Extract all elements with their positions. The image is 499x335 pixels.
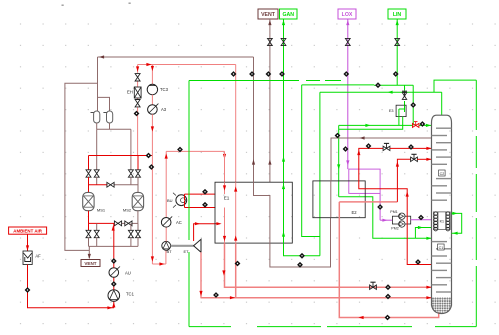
wire ms top regen stubs: [97, 129, 131, 170]
wire silencer outlets: [97, 123, 110, 129]
wire rich liquid subcooled: [339, 201, 397, 203]
wire A3 down: [151, 114, 154, 264]
wire ring top right: [434, 80, 476, 92]
svg-text:E3: E3: [389, 109, 394, 113]
booster BU: [167, 193, 187, 208]
wire regen header: [98, 55, 254, 58]
wire E3 passes: [399, 105, 405, 116]
wire purge branch: [302, 85, 320, 237]
wire ambient air line: [26, 234, 29, 251]
flow element on lower feed 1: [213, 292, 219, 298]
wire lower feed: [201, 296, 432, 299]
svg-text:E1: E1: [224, 196, 230, 201]
wire vent drop: [88, 246, 91, 259]
wire waste through E2: [330, 181, 332, 218]
wire filter outlet: [28, 265, 115, 310]
wire vent riser: [268, 19, 271, 182]
condenser K1: [433, 212, 450, 231]
wire BU suction: [185, 194, 216, 200]
valve V-MS2a: [128, 170, 133, 177]
wire cold header: [166, 151, 226, 159]
flow element BU suction: [202, 189, 208, 195]
wire lox pump drop: [379, 193, 381, 220]
compressor TC1: [108, 290, 135, 308]
subcooler E3: [389, 105, 406, 116]
valve on EH line lower: [135, 100, 140, 107]
wire E3 bypass: [412, 85, 414, 125]
wire E3 inlet: [404, 85, 406, 105]
wire GAN riser: [282, 19, 285, 182]
svg-text:BT: BT: [166, 249, 172, 254]
wire ms top crossover: [89, 177, 139, 192]
wire K1 circulation loop: [452, 212, 462, 235]
svg-text:ET: ET: [183, 249, 189, 254]
flow element below sieve: [111, 258, 117, 264]
control valve on hp feed: [370, 282, 377, 289]
node AMBIENT AIR label: [9, 227, 47, 234]
heater EH: [127, 87, 141, 98]
wire ring right side: [475, 80, 477, 327]
flow element on reflux 3: [408, 144, 414, 150]
heat exchanger E1: [215, 182, 292, 243]
svg-text:E2: E2: [351, 210, 357, 215]
svg-text:VENT: VENT: [84, 261, 96, 266]
wire BU discharge: [185, 200, 216, 207]
wire turbine inlet: [194, 222, 216, 241]
flow element on cold header: [177, 147, 183, 153]
flow element on air line: [25, 287, 31, 293]
flow element on regen riser: [249, 71, 255, 77]
valve V-MS1c: [86, 230, 91, 237]
flow element on rich liquid: [385, 315, 391, 321]
svg-text:TC3: TC3: [160, 87, 169, 92]
shaft BT-ET: [171, 245, 194, 247]
flow element on EH line: [134, 111, 140, 117]
wire lin to column: [339, 124, 432, 127]
node GAN (top label): [280, 9, 298, 19]
wire E1 pass b: [234, 182, 237, 243]
wire reflux into column: [390, 147, 432, 150]
wire lox bypass box: [349, 169, 380, 193]
svg-text:LIN: LIN: [393, 12, 402, 18]
wire lin header: [302, 84, 414, 86]
wire TC3 to A3: [151, 95, 153, 105]
pump PM2: [391, 221, 405, 231]
valve on LIN riser: [395, 38, 400, 45]
wire AU to sieve: [112, 223, 115, 267]
silencer S2: [103, 111, 112, 123]
svg-text:AF: AF: [35, 254, 41, 259]
valve V-MS1d: [94, 230, 99, 237]
aftercooler AC: [161, 216, 181, 227]
wire waste column line: [331, 136, 432, 181]
valve on bottom crossover left: [114, 221, 121, 226]
svg-text:A3: A3: [161, 107, 167, 112]
wire regen branch jog: [98, 97, 110, 111]
compressor TC3: [147, 84, 168, 94]
wire waste from column top: [320, 91, 442, 94]
valve on top crossover: [107, 182, 114, 187]
svg-text:C2: C2: [440, 172, 445, 176]
wire ms bottom stubs: [89, 223, 139, 230]
flow element on outlet b: [235, 261, 241, 267]
svg-text:MS2: MS2: [123, 208, 132, 213]
wire LOX riser: [346, 19, 349, 169]
wire ms bottom manifold: [89, 238, 139, 247]
aftercooler AU: [109, 267, 131, 278]
wire E1 turbine feed stub: [216, 222, 222, 225]
valve V-MS2c: [128, 230, 133, 237]
flow element on gan cold line: [299, 253, 305, 259]
wire column top riser: [441, 92, 443, 115]
adsorber MS1: [83, 192, 106, 212]
wire gan cold riser: [319, 92, 321, 256]
wire ms top feed stubs: [89, 156, 139, 171]
svg-text:VENT: VENT: [261, 12, 276, 18]
valve on EH line upper: [135, 74, 140, 81]
flow element on hp feed: [385, 284, 391, 290]
filter AF: [23, 251, 41, 265]
wire E1 pass a1: [223, 182, 226, 194]
valve on bottom crossover right: [125, 221, 132, 226]
flow element on ms manifold: [146, 153, 152, 159]
flow element on VENT riser: [266, 71, 272, 77]
column trays upper: [432, 128, 452, 200]
flow element on LOX riser (lower): [343, 146, 349, 152]
svg-text:BU: BU: [167, 198, 173, 203]
wire EH line: [136, 65, 139, 156]
control valve on E3 inlet: [402, 91, 407, 99]
wire E1 feed drop: [224, 151, 226, 182]
wire E1 gan cold stub: [284, 243, 320, 256]
valve V-MS1b: [86, 170, 91, 177]
wire rich liquid into column: [417, 158, 432, 161]
valve on GAN riser: [281, 38, 286, 45]
wire left bypass leg: [65, 83, 98, 250]
svg-text:TC1: TC1: [126, 292, 135, 297]
wire header corner to E1: [235, 65, 237, 183]
flow element on GAN riser: [279, 71, 285, 77]
wire ring top left: [189, 80, 341, 82]
speck: [62, 3, 131, 6]
wire vent riser left: [252, 57, 255, 182]
control valve rich liquid: [411, 154, 418, 161]
wire lin subcool drop: [337, 125, 340, 196]
flow element on waste line: [335, 133, 341, 139]
wire lin through E2: [339, 197, 416, 239]
node LIN (top label): [388, 9, 406, 19]
flow element on lox line: [377, 204, 383, 210]
svg-text:PM1: PM1: [390, 210, 397, 214]
wire ring left side: [188, 81, 190, 327]
wire E1 vent U-pass: [254, 182, 270, 243]
svg-text:MS1: MS1: [97, 208, 106, 213]
flow element on E3 bypass: [410, 102, 416, 108]
wire lin into column lower: [415, 237, 431, 240]
flow element after lin valve: [420, 121, 426, 127]
flow element on reflux 1: [415, 259, 421, 265]
aftercooler A3: [148, 104, 167, 115]
flow element on LOX riser (upper): [343, 71, 349, 77]
wire ms bottom crossover: [89, 211, 138, 224]
svg-text:C1: C1: [439, 246, 444, 250]
flow element BU discharge: [202, 202, 208, 208]
wire rich liquid riser: [339, 202, 438, 319]
valve V-MS1a: [94, 170, 99, 177]
flow element on vent outlet: [297, 262, 303, 268]
flow element pump discharge: [418, 215, 424, 221]
node C2 label: [439, 170, 446, 176]
wire ms red manifold: [89, 155, 153, 157]
wire pumps to column: [411, 219, 432, 221]
wire E1 pass a2: [223, 208, 226, 244]
flow element on LIN riser: [393, 71, 399, 77]
valve lin injection (red): [413, 122, 419, 128]
node VENT (top label): [258, 9, 278, 19]
wire E1 air outlet a: [222, 243, 431, 289]
wire E1 vent outlet: [270, 218, 331, 268]
wire E1 air outlet b: [235, 243, 237, 298]
wire TC1 to AU: [113, 277, 115, 289]
node VENT (ms blowdown label): [81, 260, 100, 267]
column trays lower: [432, 242, 452, 292]
wire ms top inner stubs: [97, 177, 131, 185]
valve on VENT riser: [268, 38, 273, 45]
svg-text:AMBIENT AIR: AMBIENT AIR: [13, 229, 42, 234]
wire ring bottom: [189, 326, 476, 328]
svg-text:K1: K1: [440, 220, 444, 224]
svg-text:PM2: PM2: [391, 227, 398, 231]
wire regen top manifold: [97, 128, 131, 130]
wire turbine outlet: [199, 252, 215, 297]
wire TC3 line upper: [151, 65, 154, 85]
svg-text:AU: AU: [125, 271, 131, 276]
flow element above TC1: [111, 281, 117, 287]
turbine ET: [183, 239, 201, 254]
control valve on reflux: [383, 143, 390, 150]
svg-text:EH: EH: [127, 90, 133, 95]
node LOX (top label): [338, 9, 356, 19]
flow element on E1 bypass: [231, 71, 237, 77]
silencer S1: [91, 111, 100, 123]
booster BT: [162, 241, 172, 253]
column sump liquid: [432, 297, 451, 313]
flow element on recycle line: [149, 164, 155, 170]
flow element on reflux 2: [366, 143, 372, 149]
svg-text:LOX: LOX: [342, 12, 353, 18]
valve V-MS2b: [136, 170, 141, 177]
wire warm header: [138, 63, 236, 66]
flow element on lin header: [375, 82, 381, 88]
svg-text:GAN: GAN: [282, 12, 294, 18]
wire LIN riser: [396, 19, 399, 85]
svg-text:AC: AC: [176, 220, 182, 225]
wire BT discharge riser: [165, 151, 168, 241]
valve on LOX riser: [345, 38, 350, 45]
wire E3 out right: [398, 117, 400, 126]
wire E3 out left: [339, 117, 403, 130]
wire rich liquid to valve: [396, 159, 411, 202]
flow element on lower feed 2: [385, 294, 391, 300]
wire to booster BT: [152, 250, 166, 265]
node C1 label: [438, 244, 445, 250]
heat exchanger E2: [313, 181, 365, 218]
wire E1 gan pass: [282, 182, 285, 243]
wire regen drop: [97, 57, 99, 111]
column shell: [432, 115, 452, 313]
pump PM1: [390, 210, 410, 224]
wire reflux from column: [357, 148, 431, 264]
valve V-MS2d: [136, 230, 141, 237]
wire lin into column upper: [415, 226, 431, 238]
adsorber MS2: [123, 192, 144, 212]
wire lox to pumps: [380, 219, 392, 222]
